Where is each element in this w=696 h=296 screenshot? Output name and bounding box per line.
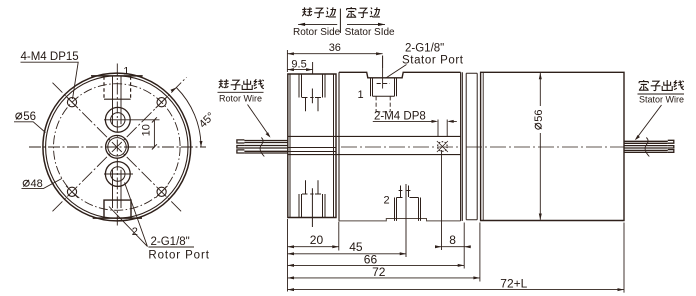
- stator port1 walls: [371, 78, 397, 96]
- svg-text:20: 20: [310, 233, 324, 247]
- ext line port1 center: [382, 56, 384, 69]
- bolt circle d48 (dash-dot): [54, 84, 181, 211]
- port2 centerline / 45-dim ext: [405, 184, 407, 257]
- divider line: [339, 9, 341, 33]
- svg-text:2-M4 DP8: 2-M4 DP8: [374, 111, 426, 123]
- port1 bottom: [373, 95, 395, 97]
- wire end hooks: [237, 140, 245, 153]
- outer circle d56: [43, 73, 191, 221]
- svg-text:56: 56: [533, 110, 545, 122]
- svg-text:36: 36: [329, 42, 341, 54]
- dim 10 vertical: [153, 120, 155, 147]
- bottom boss rect: [104, 200, 131, 218]
- svg-text:8: 8: [449, 233, 456, 247]
- screw hole bottom-left: [66, 186, 78, 198]
- rotor top port pins: [306, 98, 319, 111]
- middle body top edge with port recess: [339, 72, 461, 78]
- svg-text:2-G1/8": 2-G1/8": [151, 236, 190, 248]
- middle body bottom edge with recess: [339, 219, 461, 221]
- screw hole top-right: [156, 96, 168, 108]
- big cylinder outline: [481, 72, 624, 220]
- dim 20: [288, 246, 339, 248]
- svg-text:1: 1: [358, 89, 364, 101]
- rotor top port walls: [299, 74, 325, 98]
- rotor side header: [293, 7, 341, 38]
- wire break squiggle: [260, 138, 264, 157]
- label d56 left: [16, 113, 22, 120]
- svg-text:4-M4 DP15: 4-M4 DP15: [21, 51, 79, 63]
- svg-text:Stator SIde: Stator SIde: [345, 27, 395, 38]
- lower rotor port circles: [105, 162, 130, 187]
- diagonal centerline NE-SW: [53, 77, 187, 211]
- dim 36: [287, 53, 382, 55]
- diagonal centerline NW-SE: [53, 83, 182, 212]
- screw hole top-left: [66, 96, 78, 108]
- rotor bottom port centerline: [310, 188, 313, 227]
- label d48 left: [23, 180, 29, 187]
- port1 hidden pilot (dashed): [376, 84, 390, 112]
- rotor wire bundle left: [237, 138, 288, 157]
- svg-text:2: 2: [384, 195, 390, 207]
- wire lines: [244, 141, 287, 154]
- dim d56 side: [539, 73, 542, 220]
- stator wire label: [635, 80, 684, 140]
- dim 8: [442, 246, 465, 248]
- middle body left edge: [338, 72, 340, 221]
- main axis centerline: [341, 146, 624, 148]
- top boss rect: [104, 76, 131, 99]
- bottom flat line: [93, 217, 142, 219]
- svg-text:Rotor Side: Rotor Side: [293, 27, 341, 38]
- dim 45: [288, 253, 407, 255]
- rotor top port bottom ticks: [302, 97, 321, 99]
- dim 9.5: [287, 69, 312, 71]
- rotor block inner wall lines: [290, 74, 334, 218]
- big cylinder left inner line: [482, 72, 484, 220]
- svg-text:10: 10: [141, 124, 153, 136]
- upper rotor port circles: [105, 107, 130, 132]
- stator port2 walls (bottom): [395, 198, 421, 221]
- svg-text:56: 56: [23, 111, 36, 123]
- svg-text:2-G1/8": 2-G1/8": [405, 42, 444, 54]
- stator wire bundle right: [624, 138, 674, 157]
- lower port hole wall lines: [113, 170, 122, 208]
- dim 72+L: [288, 289, 625, 291]
- upper port hole wall lines: [113, 76, 122, 124]
- rotor bottom port ticks: [302, 193, 321, 195]
- port2 pins: [399, 186, 411, 198]
- port2 top ticks: [397, 197, 419, 199]
- svg-text:Rotor Port: Rotor Port: [148, 250, 209, 262]
- svg-text:1: 1: [123, 66, 129, 78]
- port1 center ext line: [382, 56, 384, 89]
- 45 deg arc dimension: [176, 88, 201, 148]
- dim 72: [288, 277, 480, 279]
- svg-text:72: 72: [372, 265, 386, 279]
- horizontal centerline: [29, 146, 206, 148]
- rotor top port centerline: [312, 62, 314, 75]
- svg-text:45: 45: [349, 240, 363, 254]
- rotor bottom port walls: [299, 194, 325, 218]
- inner profile circle: [46, 76, 188, 218]
- top flat line: [91, 75, 143, 77]
- M4 side hole circle: [438, 142, 448, 152]
- ext line left datum top: [286, 50, 288, 72]
- svg-text:Stator Wire: Stator Wire: [639, 95, 684, 105]
- dim 66: [288, 264, 465, 266]
- svg-text:Rotor Wire: Rotor Wire: [219, 94, 262, 104]
- ext lines: [287, 219, 289, 292]
- rotor block outline: [288, 74, 336, 218]
- stator side header: [345, 7, 395, 38]
- center hole circles: [106, 135, 129, 158]
- svg-text:Stator Port: Stator Port: [402, 54, 464, 66]
- middle body right edge double: [461, 72, 463, 221]
- ring groove: [466, 73, 477, 220]
- rotor wire label: [218, 79, 271, 138]
- svg-text:9.5: 9.5: [291, 58, 306, 70]
- screw hole bottom-right: [156, 186, 168, 198]
- svg-text:45°: 45°: [197, 110, 217, 130]
- rotor bottom port pins: [306, 180, 319, 193]
- vertical centerline: [116, 64, 118, 226]
- svg-text:72+L: 72+L: [500, 276, 527, 290]
- wires through block: [288, 136, 461, 154]
